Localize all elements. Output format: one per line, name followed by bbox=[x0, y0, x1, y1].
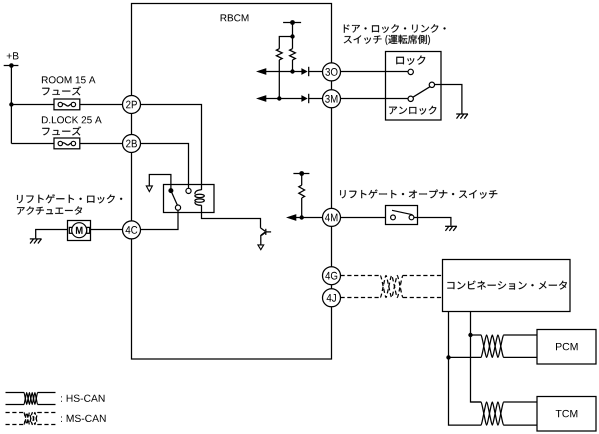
opener contact left bbox=[391, 215, 396, 220]
label liftgate opener switch bbox=[340, 190, 497, 199]
junction dot R2 bbox=[290, 69, 294, 73]
arrow to ground (open) bbox=[258, 245, 264, 250]
common contact bbox=[429, 82, 434, 87]
wire 2P to relay coil bbox=[141, 105, 202, 191]
wire to fuse F2 bbox=[11, 143, 54, 145]
HS-CAN twisted pair to TCM bbox=[481, 402, 537, 425]
legend MS-CAN text bbox=[61, 415, 106, 422]
TCM box bbox=[537, 397, 596, 432]
junction dot bbox=[290, 34, 294, 38]
resistor R3 bbox=[299, 185, 305, 198]
diode D2 bbox=[301, 94, 308, 103]
arrow out (3M line) bbox=[256, 95, 266, 102]
arrow to ground (open) bbox=[146, 186, 152, 192]
fuse F1 ROOM 15A bbox=[54, 99, 80, 110]
wire R3 to 4M line bbox=[301, 198, 303, 218]
arrow out (3O line) bbox=[256, 68, 266, 75]
wire coil to transistor bbox=[202, 205, 261, 228]
wire motor to 4C bbox=[91, 229, 123, 231]
junction dot R1 bbox=[277, 96, 281, 100]
relay coil L1 bbox=[195, 190, 204, 206]
wire to PCM pair bbox=[449, 335, 482, 357]
diode D1 bbox=[301, 67, 308, 76]
switch blade bbox=[413, 87, 430, 98]
label door-lock-link-switch line2 bbox=[344, 35, 430, 45]
wire 3M to unlock contact bbox=[341, 98, 409, 100]
pin 3M bbox=[323, 90, 341, 108]
label ROOM 15 A bbox=[42, 76, 96, 83]
label fuse (katakana) bbox=[42, 86, 81, 95]
wire D1 to 3O bbox=[309, 71, 323, 73]
wire to TCM pair bbox=[471, 401, 482, 403]
opener switch blade bbox=[392, 210, 412, 214]
wire relay common branch bbox=[149, 175, 171, 191]
opener contact right bbox=[409, 215, 414, 220]
pin 4C bbox=[123, 221, 141, 239]
label unlock bbox=[389, 106, 436, 115]
wire relay throw to 4C bbox=[141, 210, 179, 229]
B+ rail bar 2 bbox=[293, 171, 309, 176]
label D.LOCK 25 A bbox=[42, 116, 102, 123]
relay switch blade bbox=[171, 191, 178, 206]
wire 3M line bbox=[266, 98, 302, 100]
wire 4M to opener switch bbox=[341, 217, 386, 219]
door lock switch box bbox=[386, 52, 442, 121]
ground G1 bbox=[456, 114, 468, 119]
wire 3O to lock contact bbox=[341, 71, 409, 73]
pin 4G bbox=[323, 267, 341, 285]
relay throw terminal bbox=[175, 205, 180, 210]
motor M1 (liftgate lock actuator) bbox=[68, 221, 91, 241]
ground G2 bbox=[445, 226, 457, 231]
relay common dot bbox=[168, 188, 173, 193]
junction dot left bbox=[446, 355, 450, 359]
wire 4M line bbox=[296, 217, 323, 219]
wire common to ground bbox=[435, 85, 462, 114]
label liftgate lock actuator line2 bbox=[17, 206, 82, 214]
pin 2P bbox=[123, 96, 141, 114]
label combination meter bbox=[447, 281, 567, 290]
wire branch to R1 bbox=[279, 37, 292, 49]
label liftgate lock actuator line1 bbox=[17, 194, 122, 203]
legend HS-CAN symbol bbox=[6, 393, 56, 405]
label lock bbox=[396, 56, 425, 65]
junction dot bbox=[9, 102, 13, 106]
lock contact bbox=[408, 69, 413, 74]
wire rail down bbox=[292, 23, 294, 49]
label RBCM bbox=[221, 14, 249, 21]
wire D2 to 3M bbox=[309, 98, 323, 100]
legend MS-CAN symbol bbox=[6, 413, 56, 425]
relay K1 box bbox=[164, 185, 215, 213]
pin 4J bbox=[323, 289, 341, 307]
node +B tick bbox=[4, 63, 19, 68]
wire 3O line bbox=[266, 71, 302, 73]
wire 2B to relay contact bbox=[141, 144, 189, 189]
ground G3 bbox=[30, 239, 42, 244]
relay contact terminal bbox=[186, 188, 191, 193]
RBCM module box bbox=[132, 4, 332, 360]
wire opener to ground bbox=[414, 218, 451, 226]
wire meter down right bbox=[471, 312, 482, 403]
wire meter down left bbox=[449, 312, 482, 426]
fuse F2 D.LOCK 25A bbox=[54, 138, 80, 149]
label +B bbox=[7, 52, 19, 59]
arrow out (4M line) bbox=[286, 214, 296, 221]
transistor Q1 bbox=[261, 228, 272, 245]
pin 4M bbox=[323, 208, 341, 226]
resistor R1 bbox=[276, 49, 282, 60]
wire R2 to 3O line bbox=[292, 60, 294, 72]
wire fuse F1 to 2P bbox=[80, 104, 123, 106]
legend HS-CAN text bbox=[61, 395, 105, 402]
wire to fuse F1 bbox=[11, 104, 54, 106]
resistor R2 bbox=[290, 49, 296, 60]
MS-CAN twisted pair 4G/4J to meter bbox=[341, 276, 443, 298]
wire fuse F2 to 2B bbox=[80, 143, 123, 145]
liftgate opener switch box bbox=[386, 206, 418, 225]
pin 2B bbox=[123, 135, 141, 153]
wire R1 to 3M line bbox=[278, 60, 280, 99]
PCM box bbox=[537, 330, 596, 365]
junction dot R3 bbox=[300, 215, 304, 219]
wire ground to motor bbox=[36, 230, 68, 239]
B+ rail bar bbox=[283, 20, 301, 25]
combination meter box bbox=[443, 260, 571, 312]
junction dot right bbox=[468, 333, 472, 337]
wire +B vertical bbox=[10, 66, 12, 144]
pin 3O bbox=[323, 63, 341, 81]
unlock contact bbox=[408, 96, 413, 101]
HS-CAN twisted pair to PCM bbox=[481, 335, 537, 357]
label fuse 2 (katakana) bbox=[42, 126, 81, 135]
wire rail to R3 bbox=[301, 174, 303, 186]
label door-lock-link-switch line1 bbox=[344, 24, 446, 33]
